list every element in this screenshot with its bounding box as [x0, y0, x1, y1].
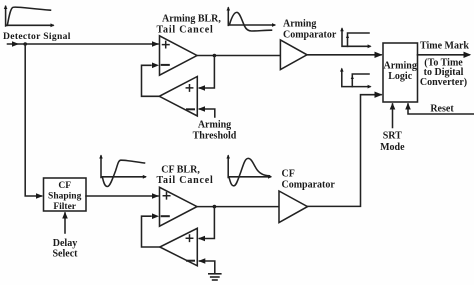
- arrowhead into arming logic left input 2: [375, 92, 383, 98]
- wire: SRT mode line: [392, 104, 394, 128]
- svg-text:CF: CF: [58, 181, 71, 191]
- svg-text:CF: CF: [282, 169, 295, 180]
- svg-text:Comparator: Comparator: [283, 30, 337, 41]
- ground: [209, 274, 221, 280]
- wire: arming threshold stub into U2 - input: [200, 109, 215, 117]
- svg-text:Arming: Arming: [384, 61, 417, 72]
- svg-text:Detector Signal: Detector Signal: [3, 31, 71, 42]
- wire: time mark output: [418, 54, 470, 56]
- wire: B2 feedback loop to B1 - input: [142, 216, 160, 247]
- arrowhead delay select into box bottom: [62, 212, 68, 219]
- label: Arming BLR, Tail Cancel: [157, 14, 222, 36]
- svg-text:Arming: Arming: [198, 120, 231, 131]
- label: Arming Threshold: [193, 120, 237, 142]
- arrowhead SRT into box bottom: [390, 103, 396, 110]
- wire: U1 output to arming comparator: [197, 55, 280, 57]
- arrowhead into B1 - input: [152, 213, 159, 219]
- arrowhead into B1 + input: [152, 193, 159, 199]
- arrowhead into op-amp A1 + input: [152, 41, 159, 47]
- svg-text:Filter: Filter: [53, 202, 76, 212]
- wire: detector signal line: [8, 43, 159, 45]
- svg-text:Logic: Logic: [388, 71, 412, 82]
- node: junction on B1 output: [213, 205, 217, 209]
- svg-text:Delay: Delay: [53, 238, 77, 249]
- arrowhead reset into box bottom: [405, 103, 411, 110]
- svg-text:Mode: Mode: [380, 142, 405, 153]
- arrowhead into U2 - input: [198, 106, 205, 112]
- detector signal waveform icon: [4, 5, 55, 27]
- node: junction on detector line: [23, 42, 27, 46]
- wire: U2 feedback loop to U1 - input: [142, 65, 160, 96]
- svg-text:Arming BLR,: Arming BLR,: [162, 14, 221, 25]
- label: Delay Select: [53, 238, 79, 260]
- arrowhead time mark: [464, 52, 472, 58]
- svg-text:CF BLR,: CF BLR,: [161, 164, 200, 175]
- waveform icon: logic step 2: [340, 68, 372, 89]
- svg-text:Tail Cancel: Tail Cancel: [157, 175, 214, 186]
- waveform icon: CF shaped signal: [99, 155, 147, 187]
- block: CF Shaping Filter box: [44, 178, 87, 212]
- label: CF Comparator: [282, 169, 336, 191]
- arrowhead into arming logic left input 1: [375, 52, 383, 58]
- wire: branch down to CF shaping filter: [25, 44, 41, 196]
- svg-text:Converter): Converter): [420, 77, 467, 88]
- wire: junction down to B2 + input: [200, 207, 215, 239]
- op-amp U2 (arming baseline amp, left-pointing): [159, 77, 197, 117]
- wire: junction down to U2 + input: [200, 56, 215, 89]
- arrowhead into CF shaping filter: [36, 193, 43, 199]
- arrowhead into B2 - input: [198, 258, 205, 264]
- arrowhead into B2 + input: [198, 236, 205, 242]
- op-amp B1 (CF BLR amp): [160, 187, 198, 226]
- svg-text:Reset: Reset: [430, 104, 454, 115]
- label: SRT Mode: [380, 131, 405, 154]
- svg-text:Arming: Arming: [283, 19, 316, 30]
- svg-text:Shaping: Shaping: [48, 192, 82, 202]
- wire: reset line: [408, 104, 474, 114]
- wire: CF filter output to op-amp B1: [86, 195, 158, 197]
- svg-text:Threshold: Threshold: [193, 131, 237, 142]
- wire: B2 - input to ground: [200, 261, 215, 274]
- node: junction on U1 output: [213, 54, 217, 58]
- label: CF BLR, Tail Cancel: [157, 164, 214, 186]
- waveform icon: arming BLR output: [227, 7, 277, 32]
- arrowhead on detector line: [12, 41, 19, 47]
- svg-text:Select: Select: [53, 249, 79, 260]
- wire: arming comparator output to arming logic: [307, 54, 381, 56]
- arrowhead into U1 - input: [152, 63, 159, 69]
- svg-text:Comparator: Comparator: [282, 180, 336, 191]
- svg-text:SRT: SRT: [383, 131, 402, 142]
- comparator U4 (CF Comparator): [279, 191, 308, 223]
- label: Arming Comparator: [283, 19, 337, 41]
- svg-text:Tail Cancel: Tail Cancel: [157, 25, 214, 36]
- op-amp B2 (CF baseline amp, left-pointing): [160, 228, 198, 265]
- comparator U3 (Arming Comparator): [280, 40, 307, 70]
- arrowhead into U2 + input: [198, 85, 205, 91]
- wire: CF comparator output up to arming logic input 2: [308, 95, 382, 207]
- wire: delay select input: [64, 213, 66, 233]
- wire: B1 output to CF comparator: [197, 206, 279, 208]
- waveform icon: CF comparator input: [226, 155, 272, 186]
- label: Time Mark (To Time to Digital Converter): [420, 41, 470, 89]
- waveform icon: logic step 1: [340, 27, 371, 48]
- op-amp U1 (Arming BLR amp): [160, 36, 198, 75]
- block: Arming Logic box: [383, 43, 418, 102]
- svg-text:Time Mark: Time Mark: [420, 41, 469, 52]
